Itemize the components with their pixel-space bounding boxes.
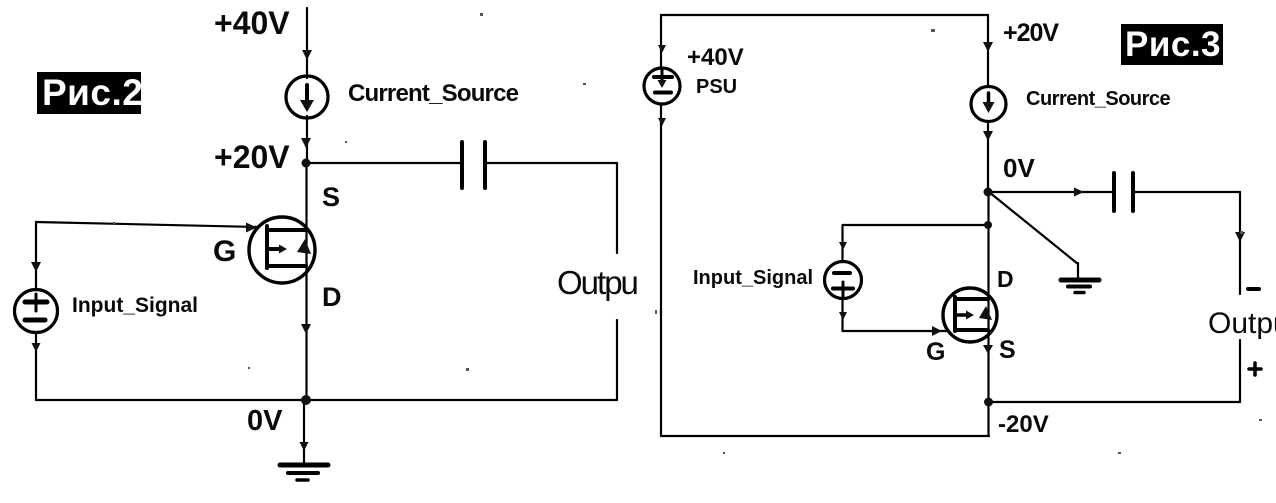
svg-text:+40V: +40V bbox=[687, 44, 744, 71]
svg-text:Рис.2: Рис.2 bbox=[42, 72, 143, 113]
svg-text:+20V: +20V bbox=[214, 139, 290, 175]
svg-text:S: S bbox=[999, 336, 1016, 364]
svg-text:G: G bbox=[213, 235, 236, 268]
svg-text:Outpu: Outpu bbox=[557, 264, 638, 301]
svg-text:0V: 0V bbox=[247, 405, 283, 437]
svg-text:S: S bbox=[322, 182, 340, 212]
svg-text:Input_Signal: Input_Signal bbox=[693, 267, 813, 289]
svg-text:Input_Signal: Input_Signal bbox=[72, 294, 198, 317]
svg-text:+20V: +20V bbox=[1003, 19, 1059, 47]
svg-text:Output: Output bbox=[1208, 307, 1276, 340]
svg-text:0V: 0V bbox=[1003, 153, 1035, 183]
svg-text:Рис.3: Рис.3 bbox=[1125, 25, 1221, 64]
svg-text:D: D bbox=[322, 282, 342, 312]
svg-text:PSU: PSU bbox=[696, 76, 737, 98]
svg-text:Current_Source: Current_Source bbox=[1026, 88, 1171, 110]
svg-text:D: D bbox=[997, 266, 1014, 292]
svg-text:Current_Source: Current_Source bbox=[348, 80, 519, 107]
svg-text:+40V: +40V bbox=[214, 5, 290, 41]
svg-text:-20V: -20V bbox=[998, 411, 1049, 438]
svg-text:G: G bbox=[926, 338, 945, 366]
